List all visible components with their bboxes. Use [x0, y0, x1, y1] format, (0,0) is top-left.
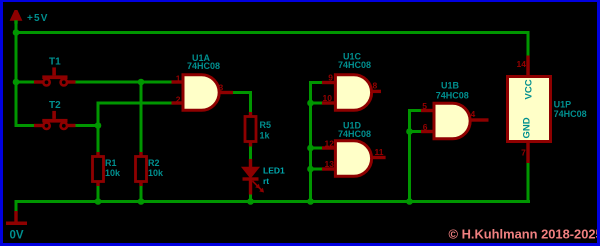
wire: R1 bottom to GND rail: [96, 185, 99, 202]
svg-text:R2: R2: [148, 158, 160, 168]
svg-text:10: 10: [323, 93, 333, 103]
svg-text:5: 5: [422, 101, 427, 111]
wire: node T2 up corner to U1A pin2: [96, 102, 99, 128]
node: junction column U1B on GND rail: [406, 198, 413, 205]
node: junction R1 on GND rail: [95, 198, 102, 205]
wire: T1 left: [16, 80, 34, 83]
wire: column to U1B pin6: [408, 130, 421, 133]
svg-text:R5: R5: [260, 120, 272, 130]
wire: R1 column (T2 node down to R1): [96, 124, 99, 154]
switch T2: [34, 100, 76, 129]
LED LED1: [243, 159, 286, 195]
wire: column to U1C pin10: [309, 101, 322, 104]
svg-text:© H.Kuhlmann 2018-2025: © H.Kuhlmann 2018-2025: [449, 226, 600, 241]
IC power block U1P 74HC08 (VCC/GND): [508, 56, 587, 164]
resistor R1: [93, 152, 122, 186]
node: junction T1/R2/U1A pin1: [138, 79, 145, 86]
svg-text:10k: 10k: [148, 168, 164, 178]
wire: column to U1D pin13: [309, 167, 322, 170]
svg-text:1: 1: [176, 74, 181, 84]
svg-text:12: 12: [325, 139, 335, 149]
switch T1: [34, 57, 76, 86]
svg-text:74HC08: 74HC08: [338, 60, 371, 70]
resistor R5: [245, 112, 271, 147]
node: junction LED1 on GND rail: [247, 198, 254, 205]
svg-text:6: 6: [423, 122, 428, 132]
AND gate U1B 74HC08: [421, 80, 489, 138]
svg-text:7: 7: [521, 148, 526, 158]
wire: U1B input column: [408, 109, 411, 202]
svg-text:74HC08: 74HC08: [187, 61, 220, 71]
resistor R2: [136, 152, 165, 186]
node: junction U1D pin13: [307, 166, 314, 173]
wire: R2 column (T1 node down to R2): [139, 82, 142, 154]
AND gate U1C 74HC08: [322, 52, 381, 111]
wire: left +5V vertical rail: [14, 19, 17, 128]
svg-text:U1B: U1B: [441, 80, 460, 90]
svg-text:13: 13: [325, 159, 335, 169]
wire: +5V top rail: [15, 31, 530, 34]
node: junction R2 on GND rail: [138, 198, 145, 205]
svg-text:9: 9: [328, 73, 333, 83]
svg-text:74HC08: 74HC08: [338, 129, 371, 139]
svg-text:4: 4: [471, 109, 476, 119]
node: junction T1 tap on left rail: [13, 79, 20, 86]
AND gate U1A 74HC08: [172, 53, 234, 110]
svg-text:14: 14: [517, 59, 527, 69]
wire: R2 bottom to GND rail: [139, 185, 142, 202]
node: junction U1B pin6: [406, 128, 413, 135]
svg-text:74HC08: 74HC08: [554, 109, 587, 119]
svg-text:1k: 1k: [260, 131, 271, 141]
svg-text:3: 3: [219, 83, 224, 93]
wire: U1A output to R5: [233, 91, 252, 94]
wire: LED1 to GND rail: [249, 194, 252, 203]
ground 0V symbol: [6, 211, 27, 242]
node: junction +5V stem/top rail: [13, 29, 20, 36]
svg-text:11: 11: [375, 147, 384, 157]
wire: T2 left: [16, 124, 34, 127]
svg-text:2: 2: [176, 95, 181, 105]
wire: GND bottom rail: [15, 200, 531, 203]
wire: GND pin to bottom rail: [526, 163, 529, 204]
node: junction U1C pin10: [307, 100, 314, 107]
svg-text:LED1: LED1: [263, 166, 285, 176]
svg-text:VCC: VCC: [524, 79, 535, 99]
svg-text:74HC08: 74HC08: [436, 91, 469, 101]
wire: column to U1B pin5: [408, 109, 421, 112]
node: junction T2/R1/U1A pin2: [95, 122, 102, 129]
svg-text:T2: T2: [49, 100, 61, 111]
svg-text:GND: GND: [522, 117, 533, 138]
wire: VCC pin drop from top rail: [526, 31, 529, 56]
wire: T2 right to node: [75, 124, 100, 127]
wire: R5 to LED1: [249, 146, 252, 161]
wire: U1C/U1D input column: [309, 81, 312, 202]
supply +5V symbol: [10, 10, 49, 24]
svg-text:8: 8: [373, 81, 378, 91]
node: junction column U1C/U1D on GND rail: [307, 198, 314, 205]
node: junction U1D pin12: [307, 145, 314, 152]
wire: T1 right to U1A pin1: [75, 80, 173, 83]
svg-text:R1: R1: [105, 158, 117, 168]
svg-text:T1: T1: [49, 57, 61, 68]
wire: column to U1D pin12: [309, 146, 322, 149]
wire: column to U1C pin9: [309, 81, 322, 84]
svg-text:10k: 10k: [105, 168, 121, 178]
wire: GND rail drop to ground symbol: [14, 200, 17, 213]
svg-text:rt: rt: [263, 176, 269, 186]
AND gate U1D 74HC08: [322, 121, 386, 177]
svg-text:0V: 0V: [10, 230, 24, 242]
svg-text:+5V: +5V: [27, 13, 49, 24]
